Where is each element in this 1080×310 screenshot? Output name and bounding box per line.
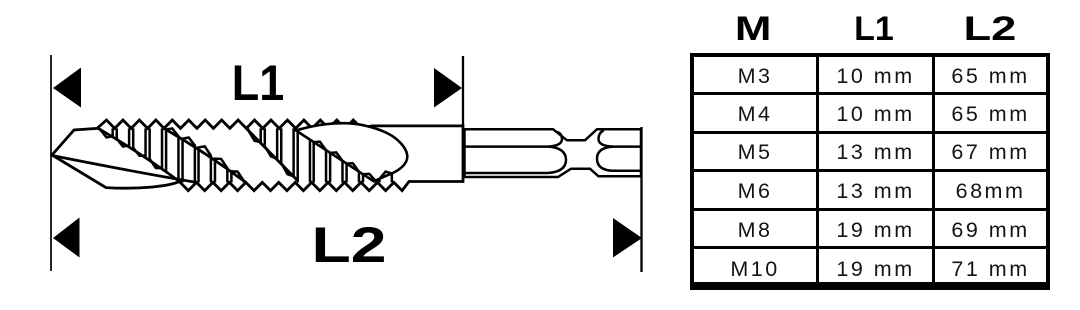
svg-text:L2: L2 [312, 217, 387, 273]
svg-text:L1: L1 [232, 55, 285, 111]
